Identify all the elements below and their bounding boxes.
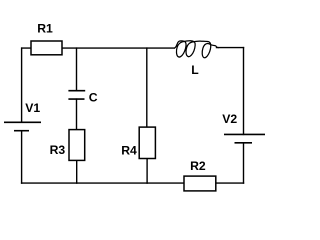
- svg-text:C: C: [89, 91, 98, 105]
- svg-text:L: L: [191, 63, 199, 77]
- svg-text:R3: R3: [50, 143, 66, 157]
- svg-text:R1: R1: [37, 21, 53, 35]
- svg-text:V2: V2: [222, 112, 237, 126]
- svg-text:R2: R2: [190, 159, 206, 173]
- svg-text:R4: R4: [121, 144, 137, 158]
- svg-text:V1: V1: [25, 101, 40, 115]
